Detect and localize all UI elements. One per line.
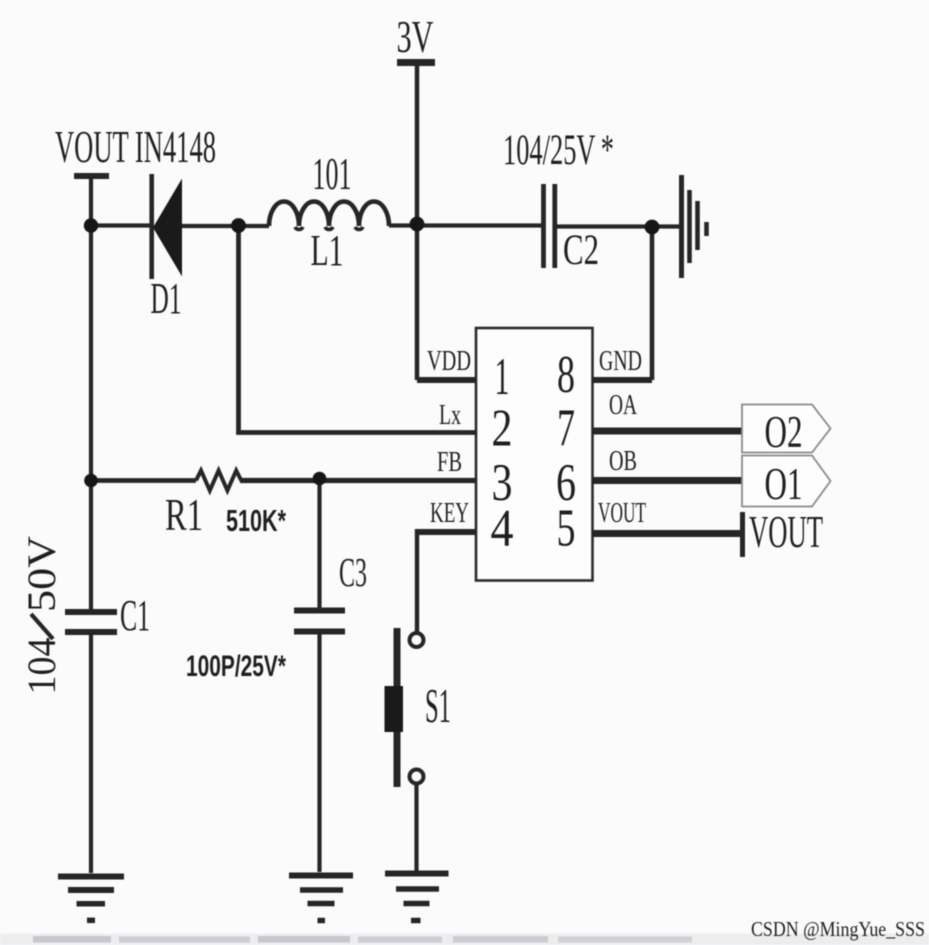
ground symbol G2 (under C3) [289,873,353,879]
wire C3 bottom to ground [317,635,321,873]
label 100P/25V* [186,650,286,683]
label R1 [165,489,203,540]
svg-text:1: 1 [495,348,510,406]
switch S1 actuator bar [394,628,401,787]
wire VOUT pin5 [593,530,743,537]
svg-text:O2: O2 [765,407,803,457]
wire FB net left segment [91,478,196,483]
power rail 3V bar [397,59,435,66]
svg-text:OB: OB [609,446,637,477]
IC U1 pin label KEY pin4 [430,498,469,529]
capacitor C3 plates [294,608,345,614]
IC U1 pin label GND pin8 [599,346,642,377]
wire 3V vertical down to VDD [415,66,420,380]
IC U1 body [476,328,593,581]
svg-text:L1: L1 [311,226,344,275]
svg-text:3V: 3V [397,11,434,62]
svg-text:KEY: KEY [430,498,469,529]
chassis ground (top right) [679,175,684,278]
svg-text:VDD: VDD [427,346,471,377]
svg-text:50V: 50V [19,536,64,612]
svg-text:101: 101 [313,148,352,199]
switch S1 bottom contact circle [410,770,424,784]
svg-text:R1: R1 [165,489,203,540]
IC U1 pin numbers right column [556,346,576,558]
svg-text:C1: C1 [120,591,150,640]
wire OB pin6 [593,477,743,484]
bottom crop band [0,934,929,945]
wire C3 top [317,478,321,608]
IC U1 pin label OB pin6 [609,446,637,477]
IC U1 pin label VOUT pin5 [598,498,646,529]
wire C1 bottom to ground [89,635,93,873]
label S1 [425,678,451,733]
label 101 [313,148,352,199]
svg-text:2: 2 [492,400,513,458]
wire OA pin7 [593,428,743,435]
svg-text:C3: C3 [339,549,367,595]
svg-text:FB: FB [437,447,462,478]
svg-text:100P/25V*: 100P/25V* [186,650,286,683]
svg-text:5: 5 [557,500,576,558]
svg-text:CSDN @MingYue_SSS: CSDN @MingYue_SSS [751,917,925,941]
wire left vertical x=91 from VOUT bar through junctions to C1 [89,179,93,609]
switch S1 top contact circle [410,633,424,647]
IC U1 pin numbers left column [491,348,514,558]
svg-text:VOUT: VOUT [598,498,646,529]
IC U1 pin label FB pin3 [437,447,462,478]
switch S1 actuator pad [385,686,404,732]
wire FB net right segment [240,478,476,483]
svg-text:104/25V *: 104/25V * [503,127,614,174]
IC U1 pin label Lx pin2 [439,400,461,431]
wire top rail y=225.5 [91,223,151,227]
label VOUT IN4148 [55,121,216,172]
inductor L1 [269,201,389,226]
svg-text:OA: OA [609,390,638,421]
svg-text:GND: GND [599,346,642,377]
svg-text:4: 4 [491,500,514,558]
svg-text:VOUT IN4148: VOUT IN4148 [55,121,216,172]
diode D1 triangle [153,179,182,277]
ground symbol G1 (under C1) [58,874,124,880]
wire GND pin8 stub [593,377,653,383]
label 104/25V * [503,127,614,174]
label C2 [563,227,599,274]
svg-text:VOUT: VOUT [749,507,823,557]
svg-text:510K*: 510K* [226,503,287,538]
IC U1 pin label OA pin7 [609,390,638,421]
IC U1 pin label VDD pin1 [427,346,471,377]
svg-text:O1: O1 [765,459,803,509]
junction node dots [84,218,98,232]
capacitor C1 plates [65,609,117,615]
svg-text:C2: C2 [563,227,599,274]
label L1 [311,226,344,275]
svg-text:Lx: Lx [439,400,461,431]
svg-text:7: 7 [557,400,575,458]
svg-text:S1: S1 [425,678,451,733]
wire VDD pin1 stub [417,377,476,383]
label 104/50V rotated [19,536,64,695]
terminal VOUT (right) bar [740,512,745,557]
label C3 [339,549,367,595]
label D1 [151,274,182,323]
resistor R1 [196,471,241,491]
connector O1 [742,456,831,507]
ground symbol G3 (under S1) [385,871,449,877]
wire S1 bottom to ground [414,784,418,872]
wire GND net vertical x=652 [650,227,655,380]
label 510K* [226,503,287,538]
terminal VOUT (left) bar [74,173,109,179]
wire KEY pin4 net [417,529,476,535]
wire Lx pin2 net [239,226,477,433]
connector O2 [742,405,831,453]
watermark [751,917,925,941]
svg-text:8: 8 [557,346,575,404]
svg-text:D1: D1 [151,274,182,323]
label C1 [120,591,150,640]
power rail 3V label [397,11,434,62]
diode D1 cathode bar [149,174,154,279]
label VOUT right [749,507,823,557]
svg-text:104: 104 [19,638,64,695]
capacitor C2 plates [541,184,546,268]
